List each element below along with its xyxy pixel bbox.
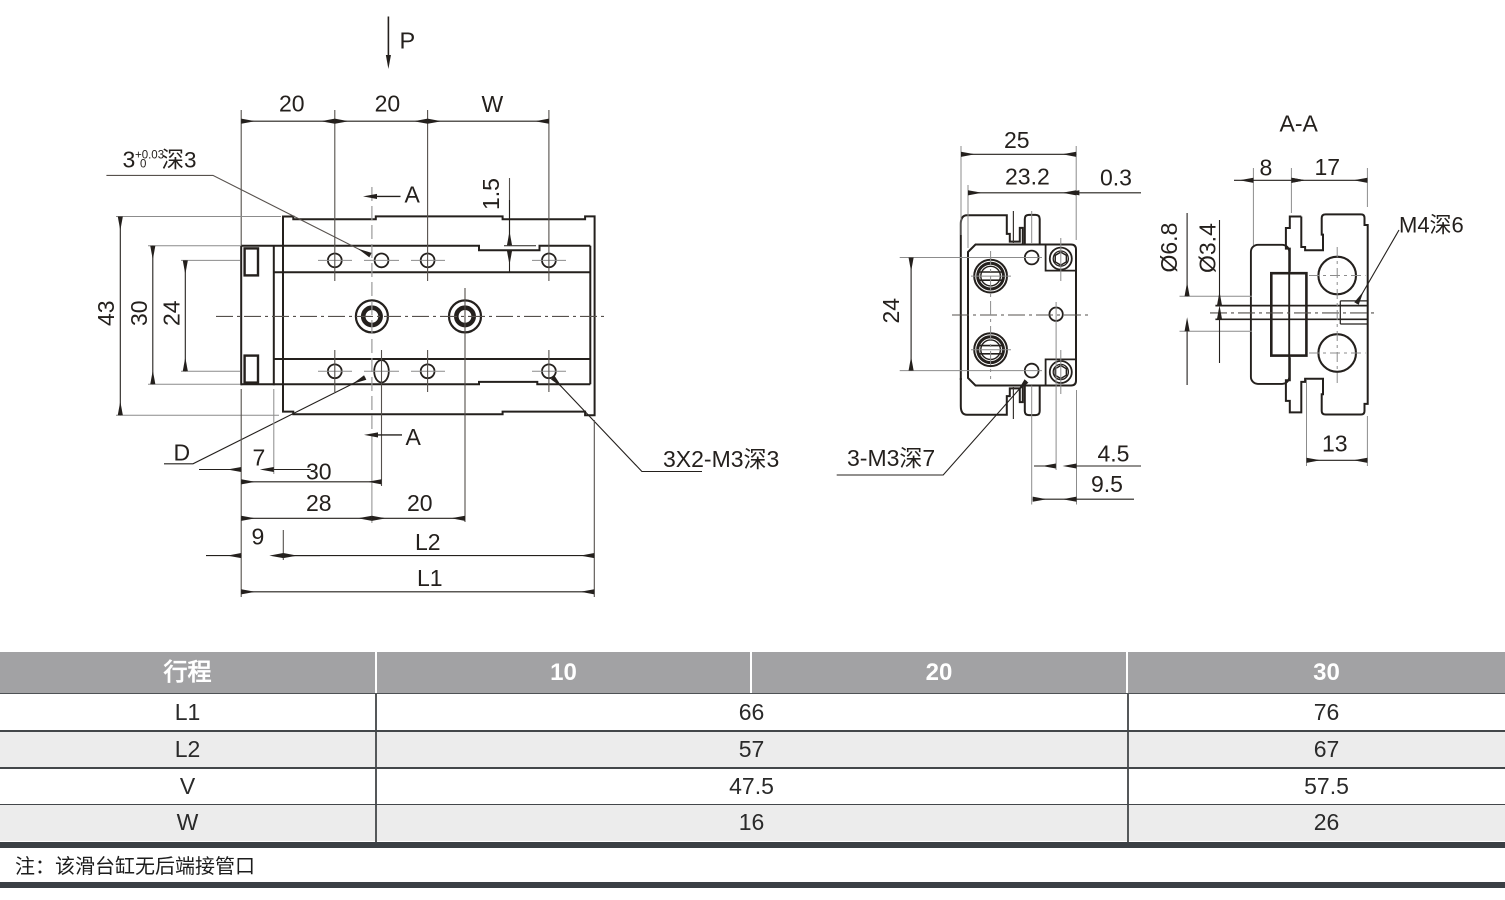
svg-text:23.2: 23.2	[1005, 164, 1050, 190]
svg-text:Ø6.8: Ø6.8	[1156, 223, 1182, 273]
svg-text:W: W	[482, 91, 504, 117]
hole bottom row 3	[421, 364, 435, 378]
note row	[0, 848, 1505, 883]
leader M4	[1357, 230, 1400, 304]
svg-text:0: 0	[140, 159, 146, 171]
hole top row 2	[375, 254, 389, 268]
hole top row 4	[542, 254, 556, 268]
svg-text:3-M3深7: 3-M3深7	[847, 445, 935, 471]
dia 6.8 ext lines	[1180, 296, 1253, 331]
svg-text:3: 3	[123, 147, 136, 173]
hole top row 3	[421, 254, 435, 268]
hole top row 1	[328, 254, 342, 268]
dims 8 / 17 ext lines	[1253, 168, 1367, 245]
dim 30 left	[152, 246, 154, 384]
piston bore bottom	[1318, 334, 1356, 372]
middle view vertical centerlines	[991, 211, 1077, 505]
hole bottom row 4	[542, 364, 556, 378]
svg-text:深3: 深3	[162, 148, 197, 173]
dim 24 middle view	[910, 258, 912, 371]
leader 3X2-M3	[553, 378, 702, 472]
piston bore top	[1318, 257, 1356, 295]
drawing svg	[0, 0, 1505, 652]
middle hole	[1049, 308, 1062, 321]
leader D	[164, 378, 365, 464]
svg-text:30: 30	[306, 459, 332, 485]
end plate lower slot	[245, 356, 258, 383]
svg-text:M4深6: M4深6	[1399, 213, 1464, 238]
slider block section	[1271, 273, 1306, 355]
leader 3-M3	[837, 381, 1027, 475]
dim 24 left	[184, 260, 186, 371]
hole centerlines gray	[318, 260, 566, 371]
dim 13 ext lines	[1307, 380, 1368, 466]
top dimension line 20/20/W	[241, 120, 335, 122]
svg-text:A: A	[406, 424, 422, 450]
top boss tab	[1025, 215, 1040, 244]
svg-text:D: D	[174, 440, 191, 466]
svg-text:20: 20	[375, 91, 401, 117]
row L2	[0, 730, 1505, 767]
section line A-A vertical	[371, 187, 373, 440]
svg-text:25: 25	[1004, 127, 1030, 153]
port plug top slot	[978, 272, 1004, 280]
right plate outline	[1286, 217, 1301, 272]
middle view horizontal centerline	[952, 314, 1089, 316]
port plug bottom ring	[978, 337, 1004, 363]
rear slide plate outline	[961, 215, 1023, 380]
big hole 1 thick ring	[363, 308, 380, 325]
main horizontal centerline	[216, 315, 608, 317]
leader for 3 deep3	[106, 175, 370, 255]
svg-text:P: P	[400, 28, 416, 54]
row V	[0, 767, 1505, 804]
counterbore corner top	[1046, 245, 1076, 271]
dim 43	[119, 217, 121, 416]
svg-text:28: 28	[306, 490, 332, 516]
row L1	[0, 693, 1505, 730]
svg-text:30: 30	[126, 300, 152, 326]
svg-text:3X2-M3深3: 3X2-M3深3	[663, 446, 779, 472]
svg-text:9.5: 9.5	[1091, 471, 1123, 497]
svg-text:17: 17	[1315, 154, 1341, 180]
svg-text:24: 24	[159, 300, 185, 326]
svg-text:20: 20	[407, 490, 433, 516]
svg-text:A-A: A-A	[1280, 111, 1319, 137]
body outline (front view)	[283, 216, 595, 415]
M4 thread lines	[1340, 301, 1367, 324]
hidden edge lines at x=1013.4	[1012, 211, 1014, 419]
svg-text:1.5: 1.5	[478, 178, 504, 210]
24 extension lines	[900, 258, 1042, 371]
big counterbore hole 1 outer	[356, 300, 388, 332]
piston rod lines	[1215, 306, 1367, 320]
left dims extension lines	[116, 217, 281, 416]
bottom boss tab	[1025, 386, 1040, 415]
bore horizontal centerlines	[1309, 276, 1366, 354]
M3 hole bottom	[1025, 364, 1039, 378]
bottom bar	[0, 882, 1505, 888]
rail third line	[274, 358, 591, 360]
svg-text:0.3: 0.3	[1100, 165, 1132, 191]
rail bottom line with recess	[241, 382, 590, 384]
svg-text:4.5: 4.5	[1098, 441, 1130, 467]
hole bottom row 1	[328, 364, 342, 378]
svg-text:Ø3.4: Ø3.4	[1195, 223, 1221, 273]
counterbore corner bottom	[1046, 359, 1076, 385]
svg-text:A: A	[405, 182, 421, 208]
svg-text:13: 13	[1322, 431, 1348, 457]
dimension table	[0, 652, 1505, 693]
svg-text:8: 8	[1260, 155, 1273, 181]
end plate upper slot	[245, 248, 258, 275]
big hole 2 thick ring	[456, 308, 473, 325]
body front face outline	[968, 245, 1076, 386]
svg-text:43: 43	[93, 300, 119, 326]
svg-text:L1: L1	[417, 565, 443, 591]
hex socket screw top	[1050, 248, 1072, 270]
section arrow A bottom	[378, 434, 402, 436]
rail second line	[274, 271, 591, 273]
hex socket screw bottom	[1050, 361, 1072, 383]
big counterbore hole 2 outer	[449, 300, 481, 332]
rail right edge	[589, 246, 591, 384]
rail plate section	[1251, 245, 1289, 384]
port plug bottom inner	[981, 340, 1001, 360]
oblong hole bottom row 2	[374, 360, 389, 382]
row W	[0, 804, 1505, 841]
port plug bottom outer	[974, 333, 1007, 366]
port plug top ring	[978, 263, 1004, 289]
A-A vertical centerline	[1336, 247, 1338, 383]
svg-text:20: 20	[279, 91, 305, 117]
thick bar below table	[0, 842, 1505, 848]
port plug top inner	[981, 266, 1001, 286]
svg-text:24: 24	[878, 298, 904, 324]
svg-text:9: 9	[252, 524, 265, 550]
svg-text:7: 7	[253, 445, 266, 471]
svg-text:L2: L2	[415, 529, 441, 555]
rail top line with 1.5 recess	[241, 246, 590, 251]
section arrow A top	[377, 195, 401, 197]
M3 hole top	[1025, 251, 1039, 265]
port plug bottom slot	[978, 346, 1004, 354]
port plug top outer	[974, 260, 1007, 293]
dims 25 / 23.2 / 0.3	[961, 146, 1076, 248]
P arrow	[387, 17, 389, 56]
bottom dims extension lines	[241, 389, 594, 597]
A-A horizontal centerline	[1210, 312, 1376, 314]
slide table left end plate	[241, 246, 274, 386]
